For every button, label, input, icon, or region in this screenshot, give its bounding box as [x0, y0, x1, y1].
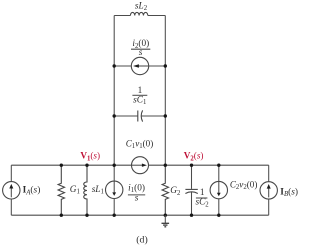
svg-text:IB(s): IB(s) — [280, 186, 298, 198]
svg-text:G1: G1 — [70, 185, 80, 196]
label C2v2(0) — [230, 179, 258, 191]
current source C1v1(0) — [132, 157, 149, 174]
node dot C2v2 bottom — [217, 214, 220, 217]
svg-text:(d): (d) — [136, 234, 147, 245]
node dot sL1 top — [85, 164, 88, 167]
current source C2v2(0) — [210, 181, 227, 198]
capacitor 1/sC1 — [138, 110, 143, 121]
label IA(s) — [23, 185, 41, 197]
wire left edge top stub — [10, 165, 12, 182]
wire rung1 left — [114, 65, 131, 67]
label V2(s) red — [184, 151, 204, 163]
svg-text:s: s — [139, 48, 143, 58]
svg-text:sC1: sC1 — [133, 95, 146, 106]
node dot rung2 right — [164, 114, 167, 117]
wire right edge top stub — [268, 165, 270, 182]
svg-text:sL1: sL1 — [92, 185, 104, 196]
wire top rail right of C1v1 source — [149, 164, 269, 166]
label C1v1(0) — [126, 138, 154, 150]
inductor sL1 — [84, 165, 87, 215]
wire top-loop top-right segment — [148, 15, 166, 17]
current source i2(0)/s — [131, 57, 148, 74]
label i2(0)/s — [131, 38, 150, 58]
resistor G1 — [58, 165, 64, 215]
node dot G1 top — [60, 164, 63, 167]
node dot rung1 left — [113, 64, 116, 67]
node dot C2 bottom — [190, 214, 193, 217]
wire top rail left of C1v1 source — [11, 164, 131, 166]
wire top-loop right vertical — [164, 16, 166, 166]
node dot G1 bottom — [60, 214, 63, 217]
label V1(s) red — [80, 151, 100, 163]
label IB(s) — [280, 186, 298, 198]
node dot i1 bottom — [113, 214, 116, 217]
node dot i1 top — [113, 164, 116, 167]
svg-text:C1v1(0): C1v1(0) — [126, 138, 154, 150]
wire bottom rail — [11, 214, 268, 216]
node dot C2v2 top — [217, 164, 220, 167]
wire C2 branch bottom stub — [191, 192, 193, 215]
node dot rung2 left — [113, 114, 116, 117]
node dot sL1 bottom — [85, 214, 88, 217]
label sL2 — [135, 1, 148, 12]
wire rung1 right — [149, 65, 166, 67]
node dot G2 top — [164, 164, 167, 167]
node dot G2 bottom — [164, 214, 167, 217]
inductor sL2 — [130, 12, 147, 15]
resistor G2 — [162, 165, 168, 215]
label 1/sC1 — [132, 86, 147, 106]
label G1 — [70, 185, 80, 196]
node dot rung1 right — [164, 64, 167, 67]
svg-text:sC2: sC2 — [195, 198, 209, 209]
wire left edge bottom stub — [10, 199, 12, 215]
wire i1 branch bottom stub — [113, 198, 115, 215]
svg-text:IA(s): IA(s) — [23, 185, 41, 197]
current source IA(s) — [3, 182, 20, 199]
caption (d) — [136, 234, 147, 245]
wire rung2 left — [114, 115, 138, 117]
wire right edge bottom stub — [268, 199, 270, 215]
label G2 — [170, 186, 181, 197]
svg-text:V1(s): V1(s) — [80, 151, 100, 163]
wire C2 branch top stub — [191, 165, 193, 189]
wire C2v2 branch top stub — [218, 165, 220, 181]
svg-text:G2: G2 — [170, 186, 181, 197]
label 1/sC2 — [195, 188, 209, 208]
wire rung2 right — [142, 115, 166, 117]
wire C2v2 branch bottom stub — [218, 199, 220, 216]
svg-text:C2v2(0): C2v2(0) — [230, 179, 258, 191]
node dot C2 top — [190, 164, 193, 167]
svg-text:sL2: sL2 — [135, 1, 148, 12]
capacitor 1/sC2 — [185, 189, 197, 193]
svg-text:V2(s): V2(s) — [184, 151, 204, 163]
wire i1 branch top stub — [113, 165, 115, 181]
wire top-loop top-left segment — [114, 15, 130, 17]
current source IB(s) — [260, 182, 277, 199]
label sL1 — [92, 185, 104, 196]
svg-text:s: s — [135, 193, 139, 203]
label i1(0)/s — [128, 182, 145, 203]
wire top-loop left vertical — [113, 16, 115, 166]
ground — [162, 215, 170, 227]
current source i1(0)/s — [106, 181, 123, 198]
